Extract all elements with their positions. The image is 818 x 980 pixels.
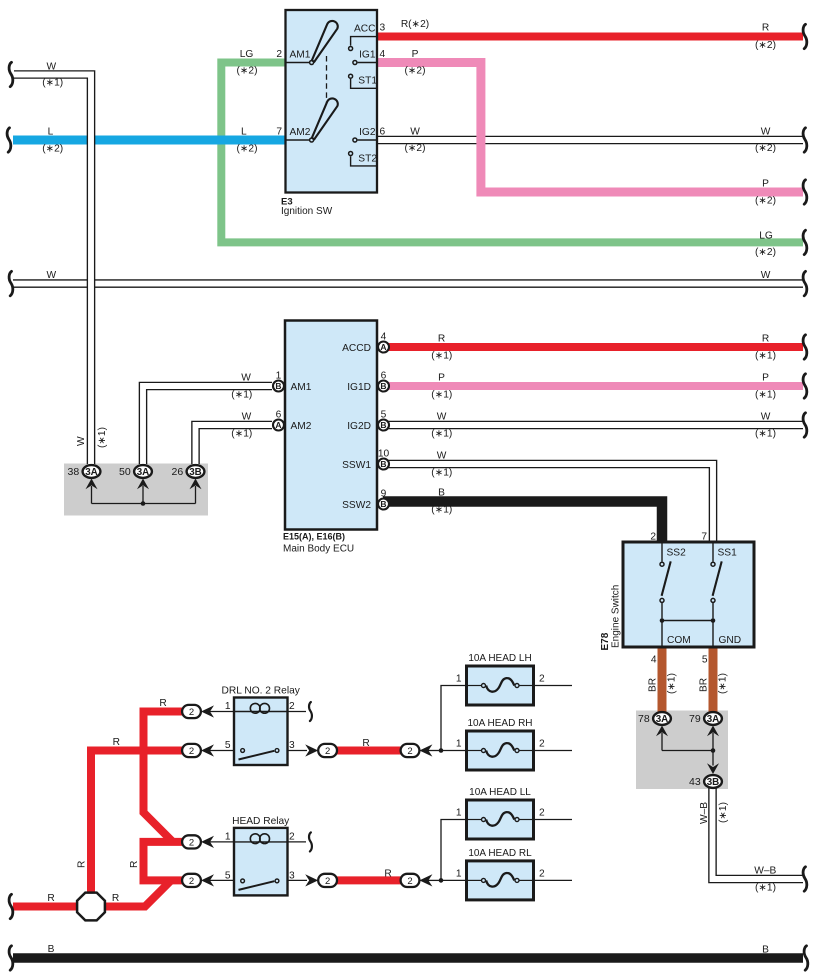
- wire: [520, 685, 533, 687]
- svg-text:HEAD Relay: HEAD Relay: [232, 816, 290, 827]
- wire: [441, 750, 467, 752]
- svg-text:AM2: AM2: [291, 421, 312, 432]
- connector HEAD pin5 connector: [182, 874, 201, 887]
- svg-text:LG: LG: [240, 49, 254, 60]
- svg-text:2: 2: [289, 831, 295, 842]
- svg-text:2: 2: [650, 532, 656, 543]
- svg-text:2: 2: [189, 838, 194, 849]
- svg-text:(∗2): (∗2): [237, 144, 258, 155]
- wire: [286, 711, 307, 713]
- svg-text:6: 6: [380, 127, 386, 138]
- break: [7, 128, 11, 152]
- break: [309, 832, 312, 851]
- wire: [92, 486, 196, 504]
- svg-text:W–B: W–B: [754, 866, 776, 877]
- svg-text:3: 3: [289, 870, 295, 881]
- svg-text:GND: GND: [719, 635, 742, 646]
- svg-text:3B: 3B: [189, 467, 202, 478]
- wire R DRL pin3 link: [336, 747, 402, 755]
- svg-text:R: R: [159, 698, 166, 709]
- svg-text:W: W: [46, 270, 56, 281]
- svg-text:5: 5: [381, 410, 387, 421]
- svg-text:2: 2: [189, 746, 194, 757]
- wire: [351, 37, 377, 46]
- svg-text:Engine Switch: Engine Switch: [611, 585, 622, 648]
- svg-text:1: 1: [456, 808, 462, 819]
- svg-text:LG: LG: [759, 230, 773, 241]
- svg-text:10A HEAD RL: 10A HEAD RL: [468, 848, 532, 859]
- wire: [662, 733, 713, 766]
- junction connector 26 3B: [172, 465, 205, 478]
- svg-text:DRL NO. 2 Relay: DRL NO. 2 Relay: [222, 686, 301, 697]
- engine switch block E78: [623, 542, 754, 647]
- connector HEAD pin3 connector A: [318, 874, 337, 887]
- svg-text:4: 4: [381, 332, 387, 343]
- svg-text:R: R: [47, 893, 54, 904]
- svg-text:2: 2: [325, 746, 330, 757]
- svg-text:1: 1: [456, 674, 462, 685]
- relay switch lever: [239, 751, 275, 760]
- svg-text:26: 26: [172, 466, 184, 478]
- svg-text:COM: COM: [667, 635, 691, 646]
- wire BR (*1) from COM: [658, 646, 667, 712]
- svg-text:4: 4: [380, 49, 386, 60]
- svg-text:5: 5: [225, 740, 231, 751]
- svg-text:B: B: [380, 499, 386, 509]
- svg-text:B: B: [275, 381, 281, 391]
- arrow: [305, 874, 318, 886]
- arrow: [201, 705, 214, 717]
- switch lever AM2: [312, 98, 338, 139]
- svg-text:2: 2: [407, 746, 412, 757]
- fuse element: [486, 743, 514, 757]
- pin connector ECU pin 6A AM2: [273, 420, 284, 431]
- svg-text:(∗1): (∗1): [755, 350, 776, 361]
- svg-text:(∗1): (∗1): [431, 467, 452, 478]
- svg-text:R: R: [384, 868, 391, 879]
- svg-text:3A: 3A: [137, 467, 150, 478]
- svg-text:(∗1): (∗1): [755, 428, 776, 439]
- svg-text:SS2: SS2: [667, 548, 687, 559]
- dashed link: [326, 56, 328, 109]
- pin connector ECU pin 9B SSW2: [378, 499, 389, 510]
- wire BR (∗1) from GND: [709, 646, 718, 712]
- svg-text:9: 9: [381, 489, 387, 500]
- relay coil: [234, 711, 288, 713]
- arrow: [137, 479, 149, 490]
- svg-text:B: B: [380, 459, 386, 469]
- svg-text:AM1: AM1: [291, 382, 312, 393]
- junction connector 43 3B: [689, 775, 722, 788]
- switch lever SS1: [713, 561, 722, 595]
- junction: [439, 748, 444, 753]
- svg-text:6: 6: [276, 410, 282, 421]
- svg-text:W: W: [761, 270, 771, 281]
- svg-text:P: P: [762, 373, 769, 384]
- svg-text:(∗1): (∗1): [718, 673, 729, 694]
- svg-text:6: 6: [381, 371, 387, 382]
- connector DRL pin3 connector A: [318, 744, 337, 757]
- svg-text:R: R: [113, 737, 120, 748]
- wire: [441, 820, 467, 881]
- svg-text:AM1: AM1: [290, 50, 311, 61]
- wire: [662, 621, 713, 646]
- junction block J1 (gray): [64, 464, 208, 516]
- pin connector ECU pin 1B AM1: [273, 381, 284, 392]
- pin connector ECU pin 6B IG1D: [378, 381, 389, 392]
- svg-text:3A: 3A: [656, 714, 669, 725]
- break: [9, 62, 13, 86]
- svg-text:(∗1): (∗1): [431, 504, 452, 515]
- break: [309, 702, 312, 721]
- break: [803, 180, 807, 204]
- svg-text:W: W: [241, 373, 251, 384]
- wire: [712, 603, 714, 618]
- svg-text:P: P: [762, 179, 769, 190]
- wire: [358, 62, 377, 64]
- svg-text:W: W: [46, 61, 56, 72]
- svg-text:5: 5: [225, 870, 231, 881]
- svg-text:AM2: AM2: [290, 127, 311, 138]
- wire: [351, 156, 377, 166]
- wire R octagon to HEAD pin5 line: [105, 881, 171, 907]
- svg-text:Ignition SW: Ignition SW: [281, 206, 333, 217]
- pin connector ECU pin 4A ACCD: [378, 342, 389, 353]
- wire R HEAD pin3 link: [336, 876, 402, 884]
- junction connector 38 3A: [68, 465, 101, 478]
- svg-text:(∗1): (∗1): [431, 350, 452, 361]
- svg-text:B: B: [762, 945, 769, 956]
- svg-text:R: R: [762, 334, 769, 345]
- svg-text:(∗2): (∗2): [405, 66, 426, 77]
- fuse element: [486, 812, 514, 826]
- svg-text:(∗1): (∗1): [667, 673, 678, 694]
- svg-text:P: P: [412, 49, 419, 60]
- wire LG (*2) from E3 AM1: [221, 63, 803, 243]
- break: [804, 946, 808, 970]
- svg-text:50: 50: [119, 466, 131, 478]
- svg-text:(∗2): (∗2): [755, 40, 776, 51]
- break: [803, 128, 807, 152]
- wire R to DRL relay pin5 / octagon: [91, 751, 185, 894]
- svg-text:10A HEAD LL: 10A HEAD LL: [469, 787, 531, 798]
- arrow: [305, 744, 318, 756]
- svg-text:38: 38: [68, 466, 80, 478]
- connector DRL pin5 connector: [182, 744, 201, 757]
- wire L (*2) to E3 AM2: [13, 136, 286, 145]
- svg-text:W–B: W–B: [699, 802, 710, 824]
- break: [9, 946, 13, 970]
- wire: [661, 544, 663, 562]
- ignition switch block E3: [286, 10, 378, 193]
- fuse 10A HEAD LL: [467, 800, 534, 839]
- wire: [428, 750, 441, 752]
- relay switch lever: [239, 881, 275, 890]
- relay coil: [234, 841, 288, 843]
- svg-text:ST1: ST1: [358, 76, 377, 87]
- wire: [286, 879, 308, 881]
- svg-text:E78: E78: [600, 632, 611, 650]
- wire R into octagon: [13, 903, 79, 911]
- arrow: [419, 874, 432, 886]
- svg-text:43: 43: [689, 776, 701, 788]
- break: [803, 374, 807, 398]
- arrow: [86, 479, 98, 490]
- svg-text:BR: BR: [648, 678, 659, 692]
- svg-text:SSW2: SSW2: [342, 500, 371, 511]
- wire: [468, 819, 481, 821]
- wire: [286, 139, 310, 141]
- wire: [286, 841, 307, 843]
- svg-text:(∗1): (∗1): [231, 389, 252, 400]
- svg-text:1: 1: [225, 831, 231, 842]
- fuse element: [486, 678, 514, 692]
- wire: [520, 879, 533, 881]
- wire W (*2) from E3 IG2: [377, 136, 803, 145]
- wire W (*1) ECU AM1 to junction 50: [143, 386, 272, 464]
- wire B SSW2 to engine switch SS2: [383, 502, 662, 544]
- arrow: [201, 836, 214, 848]
- svg-text:W: W: [242, 412, 252, 423]
- svg-text:(∗1): (∗1): [431, 428, 452, 439]
- svg-text:W: W: [437, 412, 447, 423]
- arrow: [201, 874, 214, 886]
- svg-text:1: 1: [225, 701, 231, 712]
- svg-text:(∗2): (∗2): [755, 247, 776, 258]
- svg-text:3A: 3A: [85, 467, 98, 478]
- junction: [439, 878, 444, 883]
- arrow: [707, 763, 719, 774]
- svg-text:B: B: [380, 381, 386, 391]
- break: [9, 894, 13, 918]
- svg-text:10A HEAD LH: 10A HEAD LH: [468, 653, 531, 664]
- connector HEAD pin3 connector B: [401, 874, 420, 887]
- wire: [351, 79, 377, 88]
- connector HEAD pin1 connector: [182, 835, 201, 848]
- junction connector 78 3A: [638, 712, 671, 725]
- svg-text:Main Body ECU: Main Body ECU: [283, 544, 354, 555]
- svg-text:(∗1): (∗1): [431, 389, 452, 400]
- svg-text:W: W: [410, 127, 420, 138]
- wire: [534, 685, 573, 687]
- svg-text:78: 78: [638, 713, 650, 725]
- wire: [661, 603, 663, 618]
- svg-text:(∗2): (∗2): [405, 143, 426, 154]
- svg-text:ACC: ACC: [354, 23, 376, 34]
- break: [9, 271, 13, 295]
- svg-text:4: 4: [651, 655, 657, 666]
- svg-text:2: 2: [539, 739, 545, 750]
- break: [803, 271, 807, 295]
- svg-text:3A: 3A: [707, 714, 720, 725]
- svg-text:5: 5: [702, 655, 708, 666]
- svg-text:2: 2: [289, 701, 295, 712]
- break: [803, 335, 807, 359]
- svg-text:(∗1): (∗1): [718, 802, 729, 823]
- break: [803, 230, 807, 254]
- svg-text:B: B: [380, 420, 386, 430]
- junction: [660, 618, 665, 623]
- svg-text:R: R: [762, 23, 769, 34]
- wire W (*1) ECU AM2 to junction 26: [196, 425, 273, 464]
- junction connector 50 3A: [119, 465, 152, 478]
- svg-text:(∗1): (∗1): [755, 882, 776, 893]
- junction connector 79 3A: [689, 712, 722, 725]
- wire W (*1) to junction 38: [14, 75, 91, 465]
- arrow: [707, 726, 719, 737]
- wire R bus drop: [140, 839, 148, 881]
- svg-text:1: 1: [456, 868, 462, 879]
- svg-text:R: R: [77, 861, 88, 868]
- svg-text:A: A: [380, 342, 386, 352]
- svg-text:P: P: [438, 373, 445, 384]
- wire: [358, 139, 377, 141]
- svg-text:79: 79: [689, 713, 701, 725]
- pin connector ECU pin 10B SSW1: [378, 459, 389, 470]
- junction: [711, 748, 716, 753]
- wire R (*2) from E3 ACC: [377, 33, 803, 41]
- wire W full-width: [13, 279, 803, 288]
- wire R to HEAD relay pin5: [140, 876, 183, 884]
- fuse 10A HEAD RH: [467, 731, 534, 770]
- junction block J2 (gray): [636, 711, 728, 790]
- wire: [468, 685, 481, 687]
- wire: [209, 841, 234, 843]
- wire P (*1) from ECU IG1D: [383, 382, 803, 390]
- svg-text:3: 3: [380, 23, 386, 34]
- wire: [209, 750, 234, 752]
- svg-text:R: R: [362, 738, 369, 749]
- wire: [534, 879, 573, 881]
- wire: [468, 879, 481, 881]
- svg-text:W: W: [761, 127, 771, 138]
- svg-text:2: 2: [539, 674, 545, 685]
- svg-text:R: R: [112, 893, 119, 904]
- svg-text:(∗2): (∗2): [755, 195, 776, 206]
- svg-text:(∗2): (∗2): [237, 66, 258, 77]
- wire: [520, 819, 533, 821]
- wire: [209, 711, 234, 713]
- break: [803, 413, 807, 437]
- svg-text:2: 2: [407, 876, 412, 887]
- break: [803, 24, 807, 48]
- relay DRL NO. 2 Relay: [234, 698, 288, 766]
- svg-text:(∗2): (∗2): [755, 143, 776, 154]
- relay HEAD Relay: [234, 828, 288, 896]
- svg-text:A: A: [275, 420, 281, 430]
- svg-text:(∗2): (∗2): [42, 144, 63, 155]
- wire B ground wire: [13, 953, 803, 963]
- wire W (*1) from ECU IG2D: [383, 421, 803, 430]
- svg-text:BR: BR: [699, 678, 710, 692]
- wire: [520, 750, 533, 752]
- svg-text:10: 10: [378, 449, 390, 460]
- wire: [286, 62, 310, 64]
- wire: [441, 686, 467, 751]
- svg-text:R: R: [438, 334, 445, 345]
- svg-text:10A HEAD RH: 10A HEAD RH: [467, 718, 532, 729]
- svg-text:7: 7: [701, 532, 707, 543]
- svg-text:(∗1): (∗1): [97, 427, 108, 448]
- wire R to HEAD relay pin1: [140, 838, 183, 846]
- svg-text:IG1: IG1: [359, 50, 376, 61]
- wire: [534, 819, 573, 821]
- junction: [141, 501, 146, 506]
- svg-text:W: W: [761, 412, 771, 423]
- arrow: [419, 744, 432, 756]
- wire R (*1) from ECU ACCD: [383, 343, 803, 351]
- svg-text:3: 3: [289, 740, 295, 751]
- svg-text:L: L: [48, 126, 54, 137]
- svg-text:7: 7: [276, 127, 282, 138]
- svg-text:ACCD: ACCD: [342, 343, 371, 354]
- svg-text:2: 2: [189, 707, 194, 718]
- svg-text:R(∗2): R(∗2): [401, 19, 429, 30]
- wire: [712, 544, 714, 562]
- main body ECU block E15/E16: [285, 321, 377, 530]
- svg-text:IG1D: IG1D: [347, 382, 371, 393]
- fuse 10A HEAD RL: [467, 861, 534, 900]
- svg-text:IG2: IG2: [359, 127, 376, 138]
- fuse element: [486, 873, 514, 887]
- wire R to DRL relay pin1: [144, 712, 186, 842]
- svg-text:B: B: [48, 944, 55, 955]
- switch lever SS2: [662, 561, 671, 595]
- arrow: [201, 744, 214, 756]
- wire W-B (∗1): [713, 787, 804, 879]
- wire W SSW1 to engine switch SS1: [383, 464, 713, 543]
- arrow: [656, 726, 668, 737]
- svg-text:ST2: ST2: [358, 153, 377, 164]
- svg-text:(∗1): (∗1): [42, 77, 63, 88]
- wire: [534, 750, 573, 752]
- wire: [286, 750, 308, 752]
- svg-text:1: 1: [456, 739, 462, 750]
- svg-text:3B: 3B: [707, 777, 720, 788]
- switch lever AM1: [312, 21, 338, 62]
- junction: [711, 618, 716, 623]
- svg-text:L: L: [241, 126, 247, 137]
- svg-text:2: 2: [189, 876, 194, 887]
- wire: [209, 879, 234, 881]
- pin connector ECU pin 5B IG2D: [378, 420, 389, 431]
- svg-text:IG2D: IG2D: [347, 421, 371, 432]
- break: [803, 867, 807, 891]
- svg-text:SSW1: SSW1: [342, 460, 371, 471]
- wire P (*2) from E3 IG1: [377, 63, 803, 193]
- svg-text:2: 2: [325, 876, 330, 887]
- svg-text:W: W: [76, 436, 87, 446]
- wire: [441, 879, 467, 881]
- svg-text:2: 2: [276, 49, 282, 60]
- connector DRL pin1 connector: [182, 705, 201, 718]
- svg-text:(∗1): (∗1): [755, 389, 776, 400]
- svg-text:R: R: [129, 861, 140, 868]
- svg-text:1: 1: [276, 371, 282, 382]
- svg-text:(∗1): (∗1): [231, 428, 252, 439]
- svg-text:W: W: [437, 451, 447, 462]
- svg-text:SS1: SS1: [718, 548, 738, 559]
- svg-text:B: B: [438, 487, 445, 498]
- arrow: [190, 479, 202, 490]
- fuse 10A HEAD LH: [467, 666, 534, 705]
- svg-text:2: 2: [539, 808, 545, 819]
- wire: [468, 750, 481, 752]
- svg-text:2: 2: [539, 868, 545, 879]
- svg-text:E15(A), E16(B): E15(A), E16(B): [283, 532, 345, 542]
- wire: [428, 879, 441, 881]
- connector DRL pin3 connector B: [401, 744, 420, 757]
